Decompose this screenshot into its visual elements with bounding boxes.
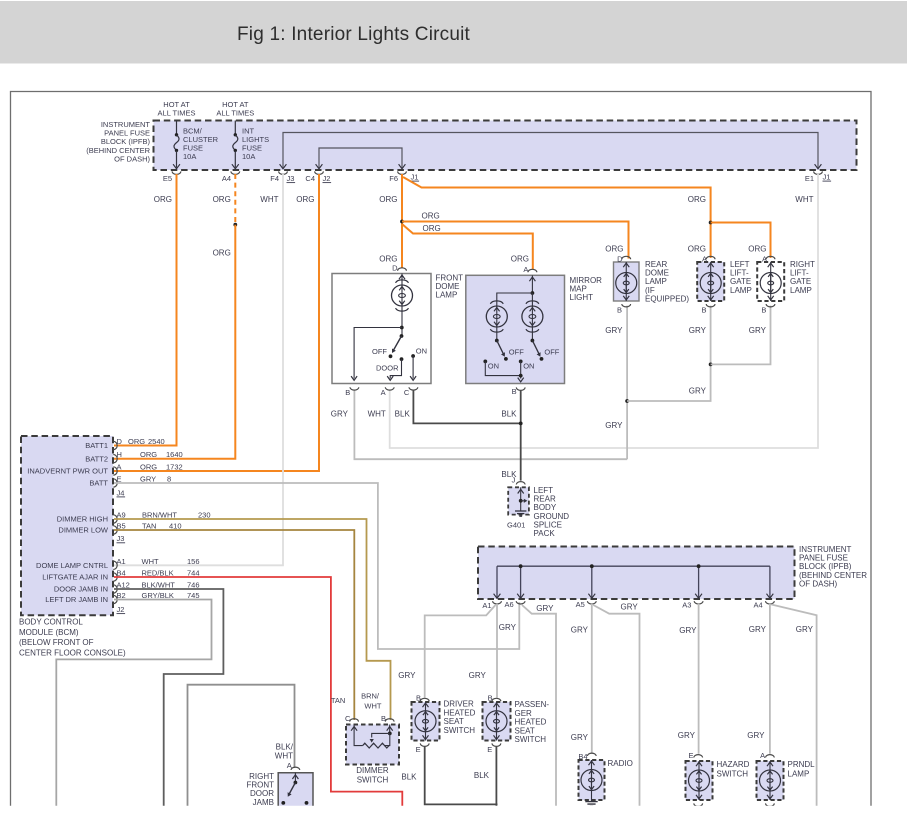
- svg-text:DOOR JAMB IN: DOOR JAMB IN: [54, 585, 108, 594]
- svg-text:BODY CONTROL: BODY CONTROL: [19, 618, 83, 627]
- svg-text:ALL TIMES: ALL TIMES: [158, 109, 196, 118]
- wire GRY front dome B to rear dome wire: [354, 390, 627, 459]
- svg-text:BRN/: BRN/: [361, 692, 380, 701]
- pin E5: [172, 171, 181, 174]
- driver heated seat switch box: [412, 702, 440, 741]
- svg-text:A5: A5: [576, 600, 585, 609]
- wire GRY A4 to prndl lamp: [769, 604, 771, 754]
- BCM pin A1 DOME LAMP CNTRL: [113, 561, 117, 569]
- svg-text:INADVERNT PWR OUT: INADVERNT PWR OUT: [27, 467, 108, 476]
- svg-text:WHT: WHT: [260, 195, 278, 204]
- wire GRY A5 to radio: [591, 604, 593, 754]
- right liftgate pin A: [766, 256, 775, 259]
- wire GRY left liftgate B down: [627, 306, 711, 401]
- rear dome lamp box: [614, 262, 640, 301]
- svg-text:SWITCH: SWITCH: [444, 726, 476, 735]
- svg-text:TAN: TAN: [331, 696, 345, 705]
- svg-text:D: D: [617, 255, 623, 264]
- wire WHT F4 to BCM DOME LAMP CNTRL: [114, 174, 283, 565]
- pin A4: [231, 171, 240, 174]
- svg-text:EQUIPPED): EQUIPPED): [645, 294, 689, 303]
- wire GRY A6 diagonal offpage: [522, 605, 556, 806]
- front dome DOOR contact: [400, 357, 404, 361]
- wire ORG A4 dashed segment: [234, 174, 236, 224]
- svg-text:A: A: [760, 751, 765, 760]
- svg-text:ORG: ORG: [213, 195, 231, 204]
- IPFB2 pin A3: [694, 601, 703, 604]
- svg-text:ORG: ORG: [688, 245, 706, 254]
- svg-text:1640: 1640: [166, 450, 183, 459]
- svg-text:E: E: [688, 751, 693, 760]
- passenger heated seat switch box: [483, 702, 511, 741]
- svg-text:GRY: GRY: [605, 326, 623, 335]
- mirror map pin A: [528, 269, 537, 272]
- svg-text:HAZARD: HAZARD: [717, 760, 750, 769]
- IPFB2 pin A1: [493, 601, 502, 604]
- svg-text:G401: G401: [507, 521, 525, 530]
- svg-text:CENTER FLOOR CONSOLE): CENTER FLOOR CONSOLE): [19, 648, 126, 657]
- svg-text:BLK: BLK: [401, 772, 417, 781]
- svg-text:OFF: OFF: [544, 347, 559, 356]
- svg-text:156: 156: [187, 557, 200, 566]
- front dome junction to pin B: [400, 326, 404, 330]
- svg-text:GRY: GRY: [749, 326, 767, 335]
- svg-text:ON: ON: [416, 347, 427, 356]
- fuse INT LIGHTS FUSE 10A: [234, 121, 236, 135]
- prndl pin A: [766, 755, 775, 758]
- svg-text:GRY: GRY: [747, 731, 765, 740]
- junction rear dome / liftgate GRY: [625, 399, 629, 403]
- BCM pin B4 LIFTGATE AJAR IN: [113, 573, 117, 581]
- svg-text:C: C: [345, 714, 351, 723]
- svg-text:H: H: [117, 450, 122, 459]
- svg-text:GRY: GRY: [469, 671, 487, 680]
- front dome lamp internal wire: [401, 307, 403, 337]
- svg-text:D: D: [117, 437, 123, 446]
- front dome ON contact: [411, 354, 415, 358]
- IPFB2 bus junction A6: [519, 564, 523, 568]
- hazard pin E: [694, 755, 703, 758]
- wire BLK/WHT right front door jamb: [188, 685, 295, 806]
- svg-text:2540: 2540: [148, 437, 165, 446]
- wire ORG branch to mirror map light: [402, 224, 533, 269]
- svg-text:DOOR: DOOR: [376, 364, 399, 373]
- svg-text:A: A: [381, 388, 386, 397]
- right liftgate pin B: [766, 304, 775, 307]
- mirror map right bulb wire: [531, 293, 533, 306]
- dimmer switch box: [346, 725, 399, 765]
- svg-text:ORG: ORG: [511, 255, 529, 264]
- prndl bottom pin: [766, 803, 775, 806]
- BCM pin A INADVERNT PWR OUT: [113, 467, 117, 475]
- wire BLK passenger seat: [495, 746, 497, 806]
- wire ORG branch to rear dome lamp: [402, 222, 629, 259]
- svg-text:A1: A1: [482, 601, 491, 610]
- mirror map entry wire: [531, 275, 533, 293]
- front dome pin A: [385, 387, 394, 390]
- pin F6 / connector J1: [398, 171, 407, 174]
- svg-text:OF DASH): OF DASH): [114, 154, 150, 163]
- svg-text:WHT: WHT: [142, 557, 159, 566]
- pin F4 / connector J3: [279, 171, 288, 174]
- BCM pin B2 LEFT DR JAMB IN: [113, 595, 117, 603]
- svg-text:A4: A4: [222, 174, 231, 183]
- svg-text:F4: F4: [270, 174, 279, 183]
- svg-text:ALL TIMES: ALL TIMES: [216, 109, 254, 118]
- driver seat pin B: [420, 698, 429, 701]
- wire BLK front dome C: [413, 390, 520, 423]
- body control module box: [21, 436, 113, 615]
- prndl lamp box: [757, 761, 784, 800]
- svg-text:BLK/: BLK/: [276, 743, 294, 752]
- svg-text:WHT: WHT: [368, 410, 386, 419]
- svg-text:ON: ON: [523, 362, 534, 371]
- radio ground: [591, 800, 593, 801]
- svg-text:WHT: WHT: [275, 752, 293, 761]
- svg-text:B: B: [416, 694, 421, 703]
- rear dome pin D: [622, 256, 631, 259]
- door jamb pin A: [291, 767, 300, 770]
- IPFB2 internal bus: [497, 565, 770, 567]
- svg-text:WHT: WHT: [795, 195, 813, 204]
- svg-text:PACK: PACK: [534, 529, 556, 538]
- wire GRY rear dome lamp B down: [626, 306, 628, 460]
- svg-text:SWITCH: SWITCH: [357, 776, 389, 785]
- svg-text:PRNDL: PRNDL: [788, 760, 816, 769]
- mirror map left switch: [496, 328, 498, 341]
- svg-text:GER: GER: [515, 709, 533, 718]
- left liftgate pin A: [706, 256, 715, 259]
- IPFB2 bus junction A3: [697, 564, 701, 568]
- wire ORG to right liftgate lamp: [711, 223, 771, 259]
- svg-text:E: E: [416, 745, 421, 754]
- svg-text:B: B: [617, 306, 622, 315]
- BCM pin D BATT1: [113, 441, 117, 449]
- svg-text:OF DASH): OF DASH): [799, 579, 838, 588]
- svg-text:PASSEN-: PASSEN-: [515, 700, 550, 709]
- wire GRY A1 to driver seat switch: [425, 605, 496, 698]
- svg-text:A: A: [117, 463, 122, 472]
- svg-text:GRY: GRY: [749, 625, 767, 634]
- G401 pin J: [516, 482, 525, 485]
- svg-text:ORG: ORG: [213, 249, 231, 258]
- rear dome pin B: [622, 304, 631, 307]
- svg-text:GRY: GRY: [689, 386, 707, 395]
- svg-text:JAMB: JAMB: [253, 798, 274, 807]
- wire GRY/BLK left door jamb in: [56, 600, 211, 807]
- svg-text:LIGHT: LIGHT: [570, 293, 594, 302]
- BCM pin E BATT: [113, 479, 117, 487]
- svg-text:J: J: [512, 476, 516, 485]
- svg-text:E: E: [487, 745, 492, 754]
- svg-text:J2: J2: [117, 605, 125, 614]
- IPFB2 bus drop x=497: [496, 566, 498, 597]
- G401 internal: [520, 487, 522, 511]
- svg-text:B: B: [381, 714, 386, 723]
- junction liftgate split: [709, 221, 713, 225]
- radio box: [579, 760, 605, 800]
- svg-text:DIMMER HIGH: DIMMER HIGH: [57, 515, 108, 524]
- front dome lamp box: [332, 274, 431, 384]
- svg-text:DOME LAMP CNTRL: DOME LAMP CNTRL: [36, 561, 108, 570]
- junction F6 distribution: [400, 220, 404, 224]
- svg-text:B: B: [761, 306, 766, 315]
- G401 splice pack box: [508, 487, 529, 514]
- svg-text:10A: 10A: [183, 152, 196, 161]
- svg-text:E5: E5: [163, 174, 172, 183]
- left liftgate pin B: [706, 304, 715, 307]
- svg-text:ORG: ORG: [140, 463, 157, 472]
- svg-text:SEAT: SEAT: [444, 717, 464, 726]
- svg-text:C4: C4: [305, 174, 315, 183]
- svg-text:B4: B4: [578, 752, 587, 761]
- svg-text:WHT: WHT: [364, 702, 381, 711]
- svg-text:J4: J4: [117, 488, 125, 497]
- svg-text:HEATED: HEATED: [515, 718, 547, 727]
- svg-text:GRY: GRY: [398, 671, 416, 680]
- svg-text:GRY: GRY: [571, 733, 589, 742]
- svg-text:LAMP: LAMP: [788, 770, 810, 779]
- svg-text:ORG: ORG: [423, 224, 441, 233]
- wire ORG branch to liftgate lamps: [403, 177, 711, 258]
- svg-text:J1: J1: [411, 173, 419, 182]
- door jamb switch internal: [294, 773, 296, 783]
- dimmer pin B: [385, 719, 394, 722]
- svg-text:OFF: OFF: [509, 347, 524, 356]
- BCM pin A9 DIMMER HIGH: [113, 515, 117, 523]
- svg-text:BLK: BLK: [474, 771, 490, 780]
- pin C4 / connector J2: [315, 171, 324, 174]
- svg-text:BLK: BLK: [395, 410, 411, 419]
- wire GRY right liftgate B: [711, 306, 771, 365]
- svg-text:A: A: [287, 761, 292, 770]
- wire BRN/WHT dimmer high: [114, 519, 391, 720]
- right liftgate lamp box: [757, 262, 784, 301]
- wire BLK mirror map B to G401: [520, 390, 522, 481]
- svg-text:BATT1: BATT1: [85, 441, 108, 450]
- wire ORG F6 drop to front dome lamp: [401, 174, 403, 268]
- svg-text:B: B: [488, 694, 493, 703]
- svg-text:DRIVER: DRIVER: [444, 700, 474, 709]
- svg-text:GRY: GRY: [571, 625, 589, 634]
- wire BLK/WHT door jamb in: [114, 589, 223, 806]
- wire ORG C4 to BCM INADVERNT PWR OUT: [114, 174, 319, 471]
- IPFB2 pin A6: [516, 601, 525, 604]
- wire TAN dimmer low: [114, 530, 354, 720]
- svg-text:ORG: ORG: [379, 195, 397, 204]
- front dome pin C: [409, 387, 418, 390]
- svg-text:MODULE (BCM): MODULE (BCM): [19, 628, 79, 637]
- svg-text:ORG: ORG: [748, 245, 766, 254]
- svg-text:10A: 10A: [242, 152, 255, 161]
- svg-text:F6: F6: [389, 174, 398, 183]
- svg-text:A: A: [762, 255, 767, 264]
- svg-text:C: C: [404, 388, 410, 397]
- IPFB2 bus drop x=769.9: [769, 566, 771, 597]
- fuse BCM/CLUSTER FUSE 10A: [176, 121, 178, 135]
- title banner: [0, 1, 907, 64]
- hazard switch box: [686, 761, 713, 800]
- svg-text:A: A: [702, 255, 707, 264]
- right front door jamb switch box: [278, 773, 313, 806]
- svg-text:GRY: GRY: [331, 410, 349, 419]
- BCM pin A12 DOOR JAMB IN: [113, 585, 117, 593]
- splice on A4 wire: [233, 223, 237, 227]
- svg-text:J2: J2: [323, 174, 331, 183]
- svg-text:E1: E1: [805, 174, 814, 183]
- junction BLK splice: [519, 422, 523, 426]
- svg-text:SWITCH: SWITCH: [515, 735, 547, 744]
- svg-text:ORG: ORG: [688, 195, 706, 204]
- svg-text:Fig 1: Interior Lights Circuit: Fig 1: Interior Lights Circuit: [237, 24, 471, 45]
- mirror map pin B: [516, 387, 525, 390]
- svg-text:ORG: ORG: [605, 245, 623, 254]
- svg-text:LAMP: LAMP: [436, 291, 458, 300]
- wire ORG A4 to BCM BATT2: [114, 225, 235, 459]
- svg-text:DIMMER LOW: DIMMER LOW: [58, 526, 109, 535]
- mirror map left ON contact: [483, 360, 487, 364]
- mirror map right switch: [531, 328, 533, 341]
- IPFB2 bus junction A5: [590, 564, 594, 568]
- svg-text:SWITCH: SWITCH: [717, 770, 749, 779]
- instrument panel fuse block (IPFB) lower box: [478, 547, 795, 600]
- svg-text:ORG: ORG: [422, 212, 440, 221]
- pin E1 / connector J1: [814, 171, 823, 174]
- dimmer rheostat: [354, 725, 363, 746]
- svg-text:GRY: GRY: [499, 623, 517, 632]
- instrument panel fuse block (IPFB) top box: [154, 121, 857, 171]
- wire WHT E1 to front dome lamp A: [390, 174, 818, 448]
- IPFB2 bus drop x=698.6: [698, 566, 700, 597]
- wire GRY 8 BCM BATT to IPFB2 A6: [114, 483, 519, 649]
- mirror map light box: [466, 275, 565, 383]
- svg-text:J3: J3: [287, 174, 295, 183]
- BCM pin H BATT2: [113, 455, 117, 463]
- svg-text:A1: A1: [117, 557, 126, 566]
- svg-text:A6: A6: [505, 600, 514, 609]
- svg-text:ORG: ORG: [128, 437, 145, 446]
- svg-text:GRY: GRY: [796, 625, 814, 634]
- left liftgate lamp box: [697, 262, 724, 301]
- svg-text:ORG: ORG: [296, 195, 314, 204]
- svg-text:HEATED: HEATED: [444, 708, 476, 717]
- mirror map exit junction: [519, 374, 523, 378]
- wire GRY A4 diagonal offpage: [771, 605, 816, 807]
- svg-text:GRY: GRY: [689, 326, 707, 335]
- svg-text:LIFTGATE AJAR IN: LIFTGATE AJAR IN: [42, 573, 108, 582]
- svg-text:LAMP: LAMP: [790, 286, 812, 295]
- svg-text:ORG: ORG: [154, 195, 172, 204]
- hazard bottom pin: [694, 803, 703, 806]
- junction liftgate GRY merge: [709, 363, 713, 367]
- dimmer pin C: [350, 719, 359, 722]
- front dome pin D: [398, 268, 407, 271]
- svg-text:ON: ON: [488, 362, 499, 371]
- svg-text:GRY: GRY: [678, 731, 696, 740]
- svg-text:BATT: BATT: [89, 479, 108, 488]
- svg-text:J1: J1: [823, 173, 831, 182]
- svg-text:A: A: [523, 265, 528, 274]
- driver seat pin E: [420, 743, 429, 746]
- wire ORG E5 to BCM BATT1: [114, 174, 177, 446]
- IPFB2 bus drop x=591.8: [591, 566, 593, 597]
- svg-text:SEAT: SEAT: [515, 726, 535, 735]
- svg-text:BATT2: BATT2: [85, 454, 108, 463]
- wire GRY A5 diagonal offpage: [593, 605, 639, 806]
- wire GRY A3 to hazard switch: [698, 604, 700, 754]
- svg-text:B: B: [345, 388, 350, 397]
- wire RED/BLK liftgate ajar: [114, 577, 402, 806]
- svg-text:A4: A4: [754, 601, 763, 610]
- front dome pin B: [350, 387, 359, 390]
- IPFB2 pin A4: [766, 601, 775, 604]
- svg-text:GRY: GRY: [605, 421, 623, 430]
- svg-text:BLK: BLK: [501, 410, 517, 419]
- svg-text:DIMMER: DIMMER: [356, 766, 389, 775]
- svg-text:(BELOW FRONT OF: (BELOW FRONT OF: [19, 638, 94, 647]
- front dome switch: [400, 334, 404, 338]
- BCM pin B5 DIMMER LOW: [113, 526, 117, 534]
- svg-text:B: B: [512, 387, 517, 396]
- passenger seat pin E: [492, 743, 501, 746]
- front dome bulb: [401, 274, 403, 286]
- mirror map branch: [531, 291, 535, 295]
- wire GRY A1 to passenger seat switch: [496, 604, 498, 698]
- IPFB2 pin A5: [587, 601, 596, 604]
- svg-text:LAMP: LAMP: [730, 286, 752, 295]
- IPFB internal bus F4 to E1: [283, 133, 818, 168]
- svg-text:A3: A3: [682, 601, 691, 610]
- svg-text:ORG: ORG: [140, 450, 157, 459]
- svg-text:GRY: GRY: [679, 626, 697, 635]
- passenger seat pin B: [492, 698, 501, 701]
- svg-text:GRY: GRY: [536, 604, 554, 613]
- radio pin B4: [587, 753, 596, 756]
- svg-text:J3: J3: [117, 534, 125, 543]
- svg-text:1732: 1732: [166, 463, 183, 472]
- IPFB internal bus C4 to F6: [319, 148, 402, 168]
- mirror map left bulb: [490, 301, 503, 304]
- mirror map right ON contact: [519, 360, 523, 364]
- G401 ground symbol: [515, 510, 526, 512]
- IPFB2 bus drop x=520.6: [520, 566, 522, 597]
- svg-text:RADIO: RADIO: [608, 759, 633, 768]
- svg-text:GRY: GRY: [621, 602, 639, 611]
- svg-text:LEFT DR JAMB IN: LEFT DR JAMB IN: [45, 595, 108, 604]
- svg-text:OFF: OFF: [372, 347, 387, 356]
- svg-text:D: D: [392, 263, 398, 272]
- svg-text:B: B: [701, 306, 706, 315]
- wire BLK driver seat: [425, 746, 498, 804]
